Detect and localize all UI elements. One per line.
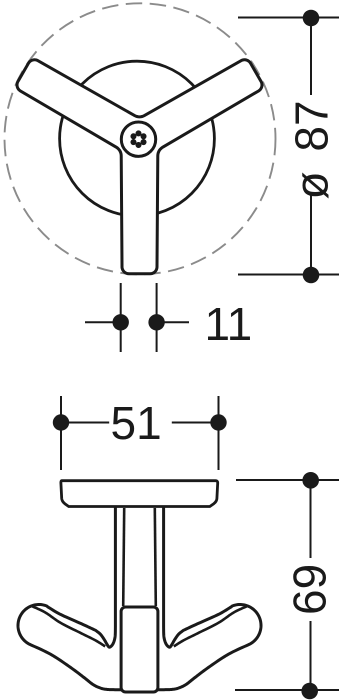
center hook block (front view) <box>121 607 158 692</box>
dim 11 horizontal line left segment <box>85 321 121 323</box>
left arm inner edge line <box>32 606 105 646</box>
dim 51 right dot <box>210 414 226 430</box>
hook body outline (front view) <box>18 503 261 690</box>
dim 51 dimension line left segment <box>61 422 109 424</box>
wall plate cap (front view) <box>61 481 218 507</box>
dim ø87 bottom dot <box>303 267 320 284</box>
dim ø87 top dot <box>303 10 320 27</box>
dim 69 top dot <box>302 472 319 489</box>
dashed reference circle ø87 (top view) <box>5 3 276 274</box>
dim 51 right extension line <box>218 396 220 470</box>
dim 11 left dot <box>113 314 129 330</box>
dim 11 left extension line <box>120 283 122 352</box>
stem right inner edge line <box>155 508 156 606</box>
dim ø87 bottom extension line <box>238 274 339 276</box>
dim 11 right extension line <box>156 283 158 352</box>
dim 11 right dot <box>148 314 164 330</box>
dim ø87 vertical dimension line lower segment <box>310 195 312 275</box>
dim 69 vertical dimension line upper segment <box>310 480 312 558</box>
dim 51 left dot <box>53 414 69 430</box>
three-arm knob body (top view) <box>17 60 262 274</box>
stem left inner edge line <box>123 508 124 606</box>
dim 69 bottom dot <box>301 683 318 700</box>
svg-text:69: 69 <box>284 564 336 615</box>
center screw circle <box>121 122 155 156</box>
dim 51 dimension line right segment <box>172 422 219 424</box>
dim 69 bottom extension line <box>235 689 339 691</box>
svg-text:51: 51 <box>111 397 162 449</box>
dim ø87 top extension line <box>238 17 339 19</box>
svg-text:11: 11 <box>205 298 253 350</box>
dim 51 left extension line <box>60 396 62 470</box>
mounting rosette circle (top view) <box>60 61 215 216</box>
right arm inner edge line <box>174 606 247 646</box>
torx screw recess <box>130 130 146 148</box>
dim 69 top extension line <box>236 479 339 481</box>
dim ø87 vertical dimension line upper segment <box>310 18 312 95</box>
dim 11 horizontal line right segment <box>157 321 189 323</box>
dim 69 vertical dimension line lower segment <box>310 621 312 691</box>
svg-text:ø 87: ø 87 <box>286 100 338 199</box>
